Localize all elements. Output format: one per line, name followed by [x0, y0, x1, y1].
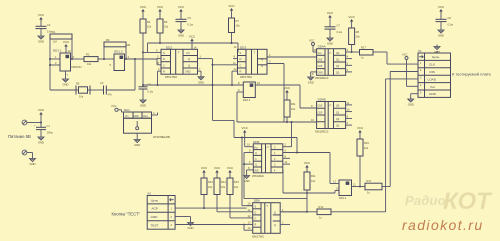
ground under C1 [38, 135, 44, 145]
svg-text:C2: C2 [47, 23, 51, 27]
svg-text:Цепь: Цепь [151, 198, 159, 202]
svg-text:R12: R12 [319, 205, 324, 209]
wire DD5 Q1 to DD1.4 [283, 149, 330, 154]
counter DD4A [315, 45, 346, 80]
power VCC DD2 [189, 34, 197, 49]
wire R8 down to Q0 line [351, 45, 353, 54]
svg-text:0.1м: 0.1м [188, 23, 194, 27]
gate DD1.4 [339, 180, 352, 200]
svg-text:К561ЛА7: К561ЛА7 [72, 66, 83, 69]
node R3 left [103, 58, 105, 60]
wire rail left drop to DD2 S [143, 43, 161, 52]
svg-text:X1: X1 [418, 49, 422, 53]
terminal supply minus [22, 150, 32, 156]
wire DA1 top-left feed [122, 111, 129, 113]
power VCC R8 [348, 15, 355, 28]
capacitor C1 [34, 124, 53, 135]
svg-text:Q: Q [255, 164, 257, 167]
wire DD3 D stub [233, 55, 238, 59]
power VCC R6 [157, 5, 164, 19]
wire ZQ1 to C3 [90, 89, 104, 91]
svg-text:КР1158ЕН5В: КР1158ЕН5В [153, 135, 170, 139]
power VCC R15 [227, 166, 234, 178]
svg-text:DD1.1: DD1.1 [53, 49, 62, 53]
svg-text:C8: C8 [448, 16, 452, 20]
power VCC R16 [357, 126, 364, 139]
watermark RadioKOT [405, 188, 493, 215]
svg-text:100м: 100м [47, 131, 53, 135]
flip-flop DD6 [252, 199, 280, 239]
svg-text:VCC: VCC [309, 39, 315, 43]
resistor R13 [201, 178, 213, 195]
resistor R2 [84, 53, 98, 66]
capacitor C2 [36, 23, 53, 34]
svg-text:Vout: Vout [143, 115, 148, 118]
svg-text:Радио: Радио [405, 193, 446, 208]
resistor R4 [140, 19, 152, 33]
wire R12 to LOAD vertical [331, 211, 386, 213]
wire DD2 D stub [157, 55, 162, 59]
wire output DD1.2 [125, 55, 158, 59]
wire R7 down to rail [231, 33, 233, 45]
svg-text:R5: R5 [76, 82, 80, 86]
power VCC circle DD4A [309, 39, 317, 53]
wire R3 left leg [103, 47, 105, 60]
ground under C2 [38, 34, 44, 44]
wire DIN row [390, 72, 418, 187]
ground under C8 [438, 28, 444, 38]
svg-text:0.1м: 0.1м [448, 23, 454, 27]
svg-text:GND: GND [254, 171, 259, 173]
ground under C7 [327, 36, 333, 46]
resistor R14 [214, 178, 226, 195]
power VCC R10 [304, 161, 311, 172]
wire DD1.4 input2 [335, 187, 339, 194]
svg-text:Q: Q [188, 63, 190, 67]
svg-text:R15: R15 [234, 180, 239, 184]
ground DD5 [244, 166, 254, 183]
wire DD6 Q to R12 [280, 211, 317, 213]
svg-text:S: S [240, 51, 242, 55]
wire DD6 Qbar stub [280, 221, 290, 225]
svg-text:GND: GND [151, 215, 159, 219]
power VCC DD5 [242, 126, 254, 147]
svg-text:Vcc: Vcc [430, 85, 436, 89]
wire DD4A Q0 to R18 [346, 48, 360, 52]
counter DD5 [252, 140, 283, 178]
wire node down to load line [306, 193, 308, 213]
svg-text:R7: R7 [236, 19, 240, 23]
wire R15 down to pin12 [230, 195, 247, 218]
resistor R15 [227, 178, 239, 195]
wire R6 down to top rail [159, 33, 161, 44]
svg-text:К561ТМ2: К561ТМ2 [252, 234, 264, 238]
resistor R12 [317, 205, 331, 220]
svg-text:R: R [240, 70, 242, 74]
wire R1 left down [49, 39, 51, 90]
svg-text:Q: Q [188, 57, 190, 61]
ground under C5 [178, 28, 184, 38]
svg-text:VCC: VCC [402, 53, 408, 57]
wire DD1.3 out down to DD4B CLB [300, 85, 317, 108]
wire R1 right down [71, 39, 73, 59]
wire DD3 Qbar branch down [283, 64, 285, 123]
wire DD4B Q1 stub [346, 108, 352, 112]
wire chain to lower rail [213, 120, 235, 137]
wire DD1.3 input2 [237, 88, 243, 92]
svg-text:Q: Q [274, 212, 276, 215]
resistor R18 [360, 46, 374, 60]
wire DD1.3 in2 down to CLR rail [236, 92, 238, 122]
wire DD3 R to reset net [231, 67, 238, 86]
wire C3 to node [106, 89, 135, 91]
svg-text:1М: 1М [127, 43, 131, 47]
svg-text:DD1.3: DD1.3 [243, 99, 251, 102]
wire R4 down to S-line and C4 [142, 33, 144, 87]
capacitor C8 [436, 16, 454, 28]
svg-text:КОТ: КОТ [443, 188, 493, 215]
svg-text:К561ИЕ10: К561ИЕ10 [315, 130, 329, 134]
svg-text:DD6: DD6 [254, 199, 260, 203]
svg-text:R2: R2 [86, 53, 90, 57]
connector X2 [147, 192, 175, 230]
resistor R16 [357, 139, 369, 156]
power VCC circle X1 [402, 53, 418, 87]
svg-text:ACP: ACP [152, 207, 158, 211]
gate DD1.2 [110, 50, 125, 71]
svg-text:D: D [255, 211, 257, 214]
svg-text:C1: C1 [47, 124, 51, 128]
svg-text:R: R [255, 224, 257, 227]
svg-text:К561ТМ2: К561ТМ2 [165, 75, 177, 79]
ground under DD1.1 [63, 71, 69, 87]
svg-text:DD4A: DD4A [318, 45, 326, 49]
node R1-output [71, 58, 73, 60]
svg-text:C: C [255, 158, 257, 161]
svg-text:C: C [163, 63, 165, 67]
wire R18 to CLK row [373, 52, 418, 64]
wire DD4A Q2 stub [346, 61, 352, 65]
node DD5 branch [291, 121, 293, 123]
wire output DD1.1 [71, 55, 85, 59]
svg-text:47н: 47н [108, 93, 113, 97]
wire R3 right leg [125, 47, 127, 59]
wire DD5 left pins to bus [244, 149, 253, 153]
wire rail to DD6 pin10 [242, 205, 253, 207]
wire DD4B Q3 stub [346, 121, 352, 125]
capacitor C5 [176, 16, 194, 28]
svg-text:К561ТМ2: К561ТМ2 [240, 75, 252, 79]
svg-text:R: R [163, 70, 165, 74]
svg-text:C3: C3 [100, 81, 104, 85]
wire DD1.4 input1 [330, 180, 339, 184]
ground X1 row [408, 94, 418, 107]
wire input1 up to Q line [329, 153, 331, 184]
svg-text:Цепь: Цепь [432, 55, 440, 59]
svg-text:R16: R16 [364, 141, 369, 145]
wire bottom RC loop [50, 89, 76, 91]
svg-text:DD3: DD3 [240, 45, 246, 49]
svg-text:DD1.2: DD1.2 [114, 50, 123, 54]
svg-text:R11: R11 [291, 102, 296, 106]
wire DD4A Q1 stub [346, 55, 352, 59]
svg-text:Кнопка "ТЕСТ": Кнопка "ТЕСТ" [112, 212, 141, 217]
svg-text:Q: Q [261, 63, 263, 67]
wire DD5 out2 stub [283, 154, 290, 158]
power VCC C8 [438, 5, 445, 19]
wire DD6 pin12 [247, 214, 253, 218]
power VCC top-left [38, 13, 45, 26]
wire DD6 pin11 [247, 208, 253, 212]
wire DD5 left pin2 [244, 160, 253, 164]
capacitor C4 [139, 83, 154, 99]
wire R16 down to DIN line [359, 156, 361, 188]
wire gate input rail [283, 192, 335, 194]
svg-text:1М: 1М [53, 40, 57, 44]
svg-text:DD1.4: DD1.4 [339, 197, 347, 200]
wire R9 to CLR rail [286, 117, 288, 122]
wire R13 down [203, 195, 205, 210]
power VCC C7 [327, 11, 334, 27]
svg-text:GND: GND [134, 116, 139, 118]
svg-text:R13: R13 [208, 180, 213, 184]
wire mid rail [234, 137, 297, 206]
power VCC C5 [178, 5, 185, 19]
svg-text:R4: R4 [147, 20, 151, 24]
resistor R10 [304, 172, 316, 190]
svg-text:radiokot.ru: radiokot.ru [402, 217, 484, 233]
flip-flop DD3 [238, 45, 268, 79]
svg-text:Питание 5В: Питание 5В [8, 134, 31, 139]
resistor R1 [50, 30, 72, 44]
wire osc out jog to DD2 C [157, 59, 161, 65]
counter DD4B [315, 98, 346, 134]
wire R10 bottom to node [306, 190, 308, 194]
ground under C4 [140, 98, 146, 108]
svg-text:DIN: DIN [430, 70, 435, 74]
svg-text:Q: Q [261, 57, 263, 61]
wire input pin1 [49, 55, 60, 60]
power VCC circle DA1 [111, 104, 122, 112]
wire DD4A Q3 stub [346, 68, 352, 72]
wire DD3 Qbar stub [267, 60, 284, 64]
svg-text:R1: R1 [52, 30, 56, 34]
svg-text:R6: R6 [164, 20, 168, 24]
wire DD2 Q to DD3 C [198, 55, 238, 121]
resistor R3 [104, 38, 130, 47]
wire rail left up to DD5 [282, 170, 284, 193]
wire DD3 Q to DD4A [267, 53, 317, 57]
gate DD1.1 [53, 49, 82, 72]
op VCC DD1.1 [63, 40, 71, 53]
svg-text:C: C [240, 63, 242, 67]
node R9 on CLR rail [286, 121, 288, 123]
svg-text:R8: R8 [356, 30, 360, 34]
wire X2 row1 to DD6 [175, 207, 247, 209]
power VCC supply [38, 108, 45, 127]
svg-text:CLB: CLB [318, 65, 323, 68]
svg-text:LOAD: LOAD [428, 77, 437, 81]
svg-text:ТЕSТ: ТЕSТ [151, 224, 159, 228]
capacitor C7 [325, 24, 343, 37]
power VCC R4 [140, 5, 147, 19]
svg-text:X2: X2 [147, 192, 151, 196]
wire X2 TEST row to pin13 [175, 224, 247, 226]
svg-text:0.1м: 0.1м [148, 90, 154, 94]
resistor R7 [229, 18, 241, 33]
wire top rail to DD3 [148, 42, 239, 44]
wire DD5 out3 stub [283, 160, 290, 164]
svg-text:GND: GND [318, 72, 324, 75]
wire reset net [142, 81, 243, 86]
wire bus to R10 node [244, 198, 307, 200]
wire DD6 pin13 [247, 221, 253, 225]
svg-text:VCC: VCC [111, 104, 117, 108]
wire input pin2 [49, 61, 60, 66]
svg-text:C7: C7 [337, 24, 341, 28]
svg-text:R17: R17 [367, 179, 372, 183]
wire LOAD row [386, 79, 418, 212]
svg-text:D: D [240, 57, 242, 61]
resistor R6 [157, 19, 169, 33]
resistor R17 [365, 179, 382, 194]
ground supply minus [30, 157, 36, 167]
svg-text:R11: R11 [311, 174, 316, 178]
ground above connector X1 [434, 45, 440, 55]
power VCC R14 [214, 166, 221, 178]
wire DD4B Q0 stub [346, 101, 352, 105]
svg-text:К561ИЕ10: К561ИЕ10 [315, 76, 329, 80]
svg-text:R17: R17 [361, 46, 366, 50]
regulator DA1 [124, 108, 170, 139]
power VCC R13 [201, 166, 208, 178]
svg-text:GND: GND [185, 71, 191, 74]
svg-text:CLK: CLK [429, 63, 436, 67]
power VCC R7 [228, 4, 235, 18]
svg-text:R3: R3 [106, 38, 110, 42]
wire DD6 pin14 tie [243, 224, 253, 231]
wire R17 to DIN vertical [382, 186, 390, 188]
svg-text:DD5: DD5 [253, 140, 259, 144]
svg-text:C5: C5 [188, 16, 192, 20]
wire DD2 R to reset net [157, 67, 162, 86]
svg-text:DA1: DA1 [124, 108, 130, 112]
svg-text:C4: C4 [148, 83, 152, 87]
svg-text:К561ИЕ9: К561ИЕ9 [252, 174, 264, 178]
connector X1 [418, 49, 451, 97]
resistor R8 [349, 28, 361, 45]
gate DD1.3 [243, 82, 255, 102]
svg-text:CLR: CLR [318, 111, 323, 114]
svg-text:D: D [163, 57, 165, 61]
ground DD2 [198, 67, 205, 84]
svg-text:GND: GND [429, 92, 437, 96]
wire branch down to DD5 pin [283, 122, 292, 147]
wire X2 GND row [175, 217, 193, 231]
wire DD1.3 output [255, 81, 300, 85]
wire DD4B Q2 stub [346, 114, 352, 118]
wire rail drop to DD3 S [234, 43, 239, 52]
ground DA1 [134, 133, 140, 147]
wire left bus down [243, 153, 245, 199]
svg-text:DD2: DD2 [166, 45, 172, 49]
ground DD4A [308, 72, 317, 85]
resistor R9 [284, 100, 296, 117]
terminal supply plus [22, 120, 41, 125]
wire DD6 pin nums [247, 202, 253, 206]
wire R14 down to pin11 [217, 195, 247, 212]
wire R2 to DD1.2 [98, 58, 114, 60]
wire CLR rail [237, 118, 317, 122]
flip-flop DD2 [161, 45, 198, 79]
crystal ZQ1 [76, 82, 90, 99]
power VCC R9 [284, 86, 291, 100]
wire DD1.4 output [352, 183, 366, 187]
wire DD6 Q out [280, 208, 307, 212]
svg-text:Q: Q [274, 224, 276, 227]
svg-text:C: C [255, 218, 257, 221]
svg-text:0.1м: 0.1м [337, 30, 343, 34]
svg-text:DD4B: DD4B [318, 98, 326, 102]
node R3 right [125, 58, 127, 60]
wire DA1 Vout stub [152, 111, 158, 115]
node DD1.2 out [134, 58, 136, 60]
svg-text:К тестируемой плате: К тестируемой плате [452, 72, 492, 77]
svg-text:Q: Q [255, 152, 257, 155]
capacitor C3 [100, 81, 112, 97]
svg-text:R14: R14 [221, 180, 226, 184]
svg-text:CLB: CLB [318, 105, 323, 108]
svg-text:S: S [163, 51, 165, 55]
wire feedback down [134, 59, 136, 90]
svg-text:CLB: CLB [318, 58, 323, 61]
